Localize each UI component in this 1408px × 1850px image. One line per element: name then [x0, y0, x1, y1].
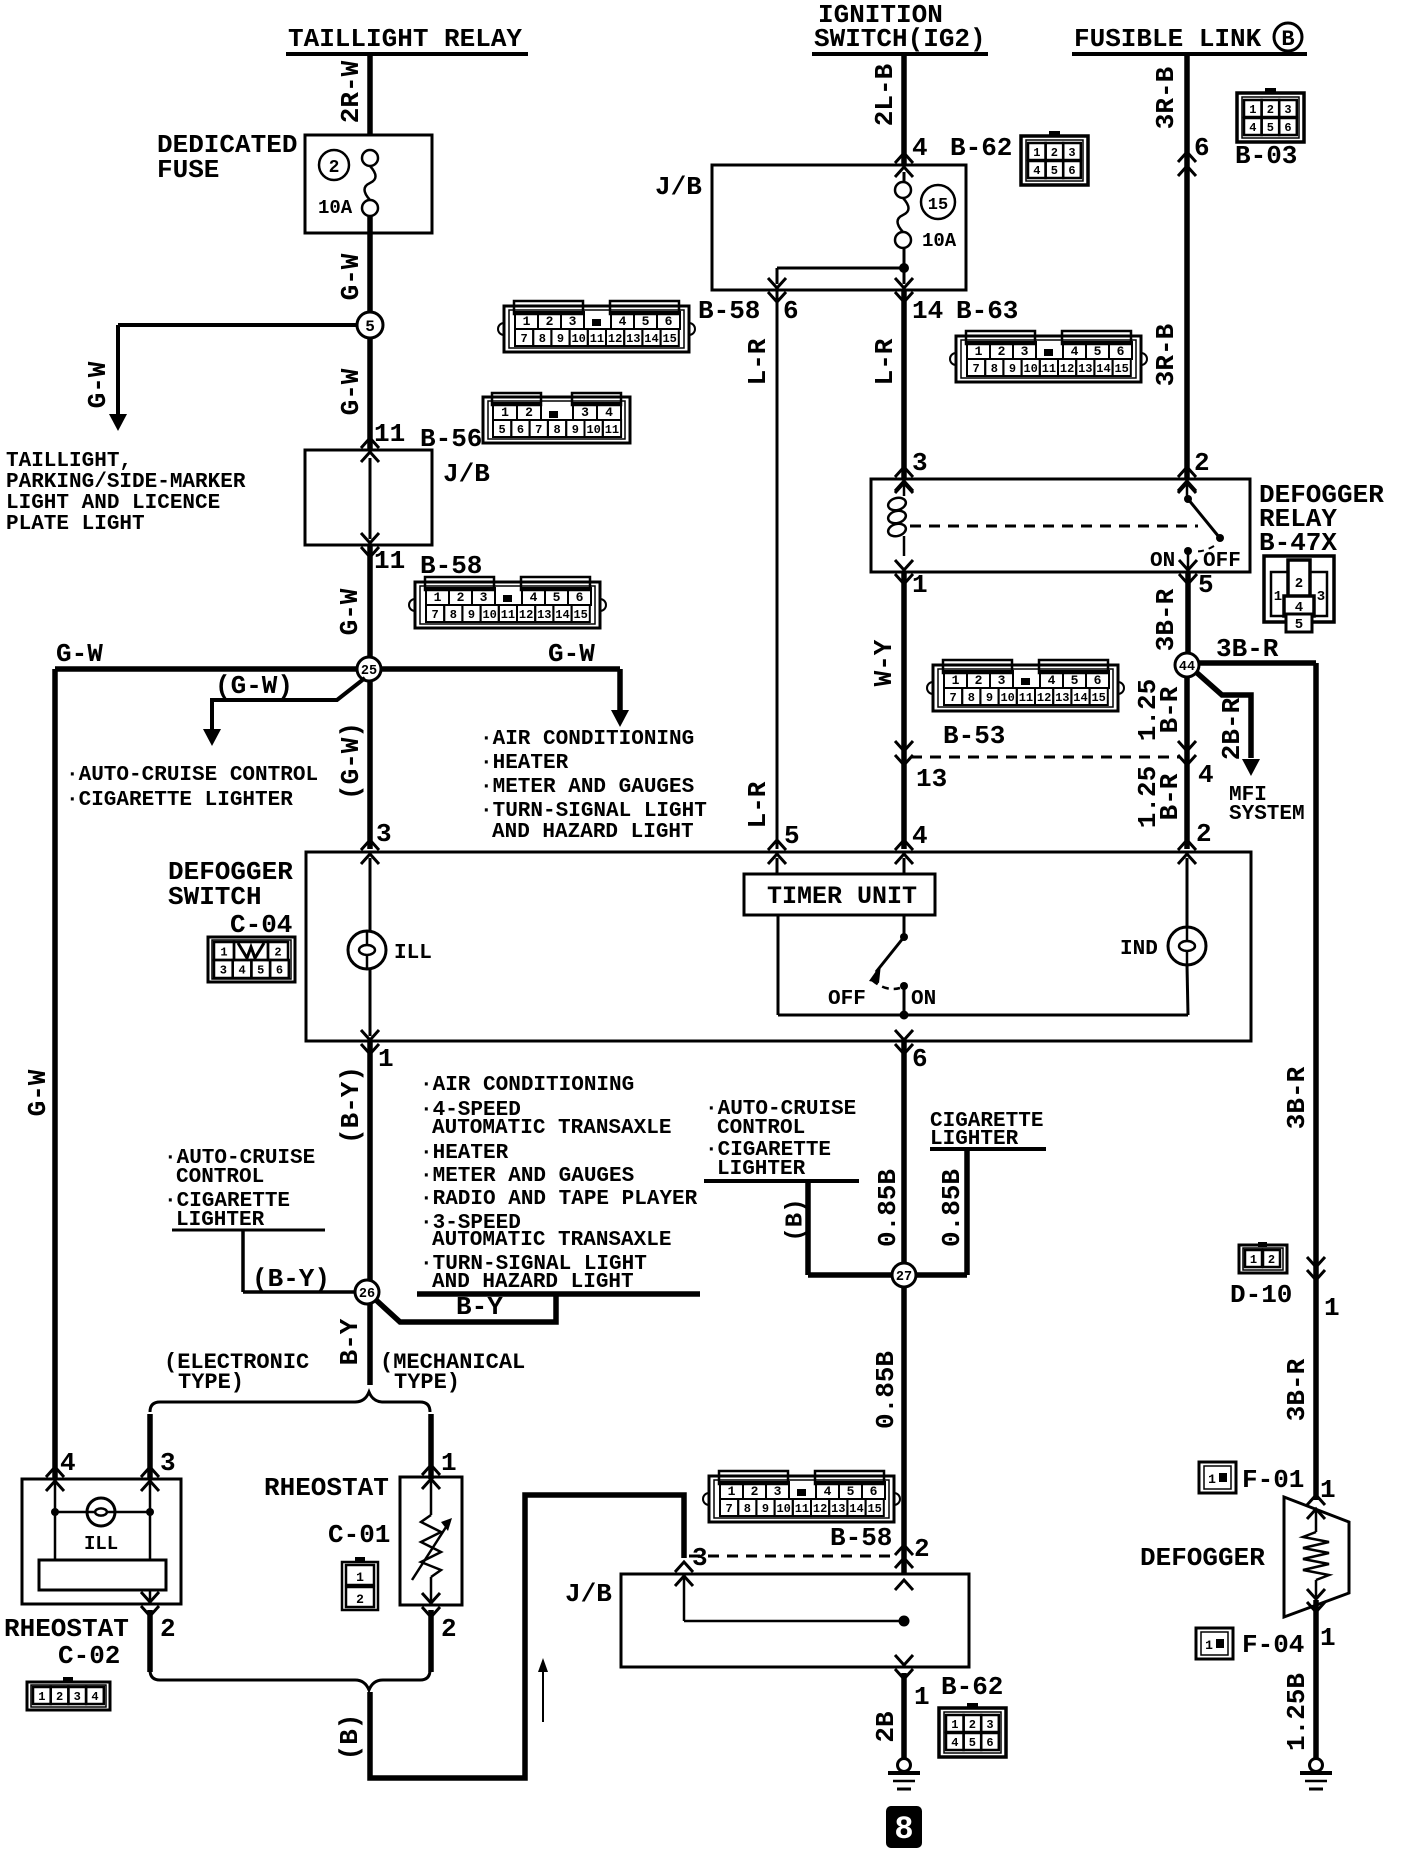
switch blade with arrowhead	[876, 937, 904, 972]
relay coil	[903, 483, 906, 496]
svg-text:CONTROL: CONTROL	[176, 1166, 264, 1189]
pin 14 chevrons out of J/B	[895, 292, 913, 302]
svg-text:5: 5	[784, 821, 800, 851]
svg-text:L-R: L-R	[870, 338, 900, 385]
svg-text:1: 1	[378, 1044, 394, 1074]
svg-text:4: 4	[530, 590, 538, 605]
svg-text:5: 5	[642, 314, 650, 329]
svg-text:2: 2	[1268, 1253, 1275, 1267]
svg-text:TYPE): TYPE)	[178, 1370, 244, 1395]
svg-text:10: 10	[482, 608, 496, 622]
bus junction dot	[900, 1011, 909, 1020]
svg-text:14: 14	[912, 296, 943, 326]
underline auto-cruise list	[172, 1229, 325, 1232]
svg-text:3: 3	[1284, 103, 1291, 117]
svg-text:14: 14	[555, 608, 569, 622]
wire pin 3 inside J/B	[683, 1574, 686, 1621]
svg-text:12: 12	[1037, 691, 1051, 705]
defogger element outline	[1284, 1497, 1349, 1617]
svg-text:L-R: L-R	[743, 781, 773, 828]
pin 11 chevrons into J/B	[361, 438, 379, 448]
connector C-04	[208, 937, 295, 982]
svg-text:8: 8	[553, 423, 560, 437]
svg-text:27: 27	[896, 1270, 912, 1285]
pin 4 chevrons into switch box	[895, 840, 913, 850]
svg-text:7: 7	[520, 332, 527, 346]
svg-text:4: 4	[1198, 760, 1214, 790]
svg-text:7: 7	[431, 608, 438, 622]
timer unit box	[744, 874, 935, 915]
svg-text:TIMER UNIT: TIMER UNIT	[767, 882, 917, 911]
svg-text:3: 3	[376, 819, 392, 849]
relay ON contact dot	[1184, 547, 1192, 555]
svg-text:25: 25	[361, 664, 377, 679]
junction block J/B (ignition)	[712, 165, 966, 290]
svg-text:4: 4	[238, 963, 245, 977]
svg-text:3: 3	[912, 448, 928, 478]
pin 6 chevrons out of switch box	[895, 1044, 913, 1054]
wire (B-Y) to node 26	[367, 1042, 373, 1281]
svg-text:(G-W): (G-W)	[215, 671, 293, 701]
svg-text:3: 3	[1021, 344, 1029, 359]
svg-text:B-58: B-58	[830, 1523, 892, 1553]
svg-text:J/B: J/B	[565, 1579, 612, 1609]
relay switch common	[1186, 483, 1189, 498]
connector B-03	[1237, 93, 1304, 142]
pin 1 chevrons out of J/B bottom	[895, 1669, 913, 1679]
svg-text:G-W: G-W	[23, 1069, 53, 1116]
svg-text:ILL: ILL	[394, 942, 432, 965]
svg-text:15: 15	[573, 608, 587, 622]
svg-text:DEFOGGER: DEFOGGER	[1140, 1543, 1265, 1573]
svg-text:1: 1	[441, 1448, 457, 1478]
svg-text:2B-R: 2B-R	[1217, 697, 1247, 760]
svg-text:0.85B: 0.85B	[871, 1351, 901, 1429]
svg-text:1: 1	[356, 1570, 364, 1585]
svg-text:15: 15	[662, 332, 676, 346]
arrow to taillight circuits	[109, 414, 127, 431]
node 25	[357, 657, 381, 681]
ILL lamp wire lower	[369, 969, 372, 1036]
rheostat resistor box	[39, 1560, 166, 1590]
wire junction to L-R branch	[777, 267, 904, 270]
fuse number circle 15	[921, 185, 955, 219]
svg-text:TYPE): TYPE)	[394, 1370, 460, 1395]
svg-text:2: 2	[56, 1690, 63, 1704]
defogger heater wire	[1315, 1510, 1318, 1532]
wire 3B-R to right rail	[1199, 660, 1316, 666]
svg-text:6: 6	[276, 963, 283, 977]
svg-text:10: 10	[1023, 362, 1037, 376]
svg-text:0.85B: 0.85B	[873, 1169, 903, 1247]
wire pin 2 down	[147, 1610, 153, 1672]
svg-text:2: 2	[1196, 819, 1212, 849]
svg-text:·HEATER: ·HEATER	[420, 1142, 509, 1165]
svg-text:3: 3	[569, 314, 577, 329]
wire (B) to J/B	[370, 1495, 684, 1778]
rheostat ILL lamp	[87, 1498, 115, 1526]
node 44	[1175, 653, 1199, 677]
svg-text:15: 15	[928, 196, 948, 215]
relay switch blade to OFF	[1188, 499, 1219, 537]
svg-text:9: 9	[1009, 362, 1016, 376]
pin 5 chevrons into switch box	[768, 840, 786, 850]
brace join to (B)	[150, 1670, 430, 1690]
svg-text:3: 3	[160, 1448, 176, 1478]
svg-text:2R-W: 2R-W	[336, 60, 366, 123]
svg-text:·HEATER: ·HEATER	[480, 752, 569, 775]
node 5	[357, 312, 383, 338]
wire G-W J/B to node 25	[367, 545, 373, 657]
svg-text:11: 11	[1042, 362, 1056, 376]
svg-text:3: 3	[220, 963, 227, 977]
defogger switch box	[306, 852, 1251, 1041]
svg-text:8: 8	[539, 332, 546, 346]
svg-text:FUSE: FUSE	[157, 155, 219, 185]
relay blade end dot	[1216, 534, 1224, 542]
relay pin5 chevrons out	[1179, 574, 1197, 584]
svg-text:11: 11	[1019, 691, 1033, 705]
connector B-58 top	[415, 582, 600, 628]
svg-text:·AIR CONDITIONING: ·AIR CONDITIONING	[420, 1074, 634, 1097]
svg-text:1: 1	[728, 1484, 736, 1499]
svg-text:12: 12	[813, 1502, 827, 1516]
wire 2R-W from taillight relay	[367, 56, 373, 135]
svg-text:RHEOSTAT: RHEOSTAT	[4, 1614, 129, 1644]
svg-text:15: 15	[867, 1502, 881, 1516]
svg-text:5: 5	[1267, 121, 1274, 135]
svg-text:G-W: G-W	[335, 588, 365, 635]
relay dashed ON position	[1193, 546, 1214, 551]
connector B-62 bottom	[939, 1708, 1006, 1757]
svg-text:SWITCH: SWITCH	[168, 882, 262, 912]
svg-text:14: 14	[849, 1502, 863, 1516]
wire from auto-cruise list to node 26	[241, 1230, 245, 1292]
fuse 15 symbol	[895, 182, 911, 198]
svg-text:1: 1	[951, 1718, 958, 1732]
svg-text:13: 13	[1055, 691, 1069, 705]
svg-text:ON: ON	[911, 988, 936, 1011]
svg-text:2: 2	[751, 1484, 759, 1499]
switch dashed to ON	[872, 980, 900, 989]
svg-text:26: 26	[359, 1287, 375, 1302]
wire G-W right branch	[381, 666, 620, 672]
switch stub from timer	[903, 915, 906, 937]
wire L-R to timer pin 5	[776, 290, 779, 849]
svg-text:B-R: B-R	[1155, 686, 1185, 733]
svg-text:3: 3	[581, 405, 589, 420]
svg-text:TAILLIGHT,: TAILLIGHT,	[6, 450, 132, 473]
svg-text:2: 2	[998, 344, 1006, 359]
svg-text:5: 5	[365, 318, 375, 336]
connector B-53	[933, 665, 1118, 711]
relay dashed link	[910, 525, 1198, 528]
svg-text:2: 2	[1194, 448, 1210, 478]
reference up arrow	[542, 1666, 544, 1722]
node 27	[892, 1263, 916, 1287]
svg-text:1: 1	[220, 945, 227, 959]
svg-text:6: 6	[665, 314, 673, 329]
svg-text:11: 11	[374, 419, 405, 449]
svg-text:G-W: G-W	[548, 639, 595, 669]
pin 1 chevrons	[422, 1465, 440, 1475]
connector chevrons B-03	[1178, 152, 1196, 162]
svg-text:1: 1	[1208, 1472, 1216, 1487]
svg-text:14: 14	[1096, 362, 1110, 376]
underline auto-cruise 2	[704, 1179, 859, 1183]
svg-text:11: 11	[795, 1502, 809, 1516]
svg-text:13: 13	[831, 1502, 845, 1516]
rheostat internal wires	[54, 1479, 57, 1560]
svg-text:2L-B: 2L-B	[870, 63, 900, 126]
svg-text:5: 5	[1198, 570, 1214, 600]
svg-text:(B): (B)	[335, 1714, 365, 1761]
svg-text:2B: 2B	[871, 1711, 901, 1743]
wire L-R ignition to relay pin 3	[901, 290, 907, 479]
svg-text:4: 4	[912, 821, 928, 851]
svg-text:9: 9	[557, 332, 564, 346]
svg-text:1: 1	[1249, 103, 1256, 117]
junction block J/B (bottom)	[621, 1574, 969, 1667]
wire G-W node5 to J/B	[367, 337, 373, 450]
svg-text:5: 5	[1051, 164, 1058, 178]
svg-text:B-62: B-62	[941, 1672, 1003, 1702]
svg-text:AND HAZARD LIGHT: AND HAZARD LIGHT	[492, 821, 694, 844]
pin 3 chevrons into defogger switch	[361, 840, 379, 850]
svg-text:4: 4	[1249, 121, 1256, 135]
svg-text:LIGHT AND LICENCE: LIGHT AND LICENCE	[6, 492, 220, 515]
svg-text:5: 5	[969, 1736, 976, 1750]
svg-text:2: 2	[969, 1718, 976, 1732]
svg-text:6: 6	[517, 423, 524, 437]
svg-text:1: 1	[1274, 589, 1282, 605]
svg-text:2: 2	[160, 1614, 176, 1644]
svg-text:L-R: L-R	[743, 338, 773, 385]
svg-text:TAILLIGHT RELAY: TAILLIGHT RELAY	[288, 24, 522, 54]
wire to mechanical rheostat pin 1	[428, 1414, 434, 1479]
wire inside J/B	[369, 458, 372, 539]
connector C-01	[342, 1562, 378, 1610]
svg-text:5: 5	[499, 423, 506, 437]
connector chevrons D-10 pin 1	[1307, 1270, 1325, 1280]
bus line in switch box	[778, 1014, 1188, 1017]
connector B-56	[483, 397, 630, 443]
svg-text:4: 4	[824, 1484, 832, 1499]
svg-text:1: 1	[975, 344, 983, 359]
wire 3R-B from fusible link	[1184, 56, 1190, 479]
relay pin3 chevron inside	[895, 483, 913, 493]
svg-text:4: 4	[1048, 673, 1056, 688]
svg-text:13: 13	[537, 608, 551, 622]
pin 4 chevrons into J/B	[895, 153, 913, 163]
svg-text:8: 8	[894, 1811, 913, 1848]
svg-text:FUSIBLE LINK: FUSIBLE LINK	[1074, 24, 1262, 54]
svg-text:6: 6	[1284, 121, 1291, 135]
connector B-58 bottom	[709, 1476, 894, 1522]
svg-text:B-47X: B-47X	[1259, 528, 1337, 558]
wire 0.85B switch to node 27	[901, 1042, 907, 1264]
wire defogger to ground	[1313, 1600, 1319, 1758]
svg-text:8: 8	[968, 691, 975, 705]
pin 1 chevrons out of switch box	[361, 1044, 379, 1054]
rheostat electronic box	[22, 1479, 181, 1604]
svg-text:·TURN-SIGNAL LIGHT: ·TURN-SIGNAL LIGHT	[480, 800, 707, 823]
svg-text:10: 10	[586, 423, 600, 437]
arrow to AC heater circuits	[611, 710, 629, 727]
svg-text:(G-W): (G-W)	[336, 722, 366, 800]
relay output wire	[1187, 551, 1190, 568]
svg-text:B-62: B-62	[950, 133, 1012, 163]
svg-text:2: 2	[525, 405, 533, 420]
lamp ILL	[348, 931, 386, 969]
svg-text:RHEOSTAT: RHEOSTAT	[264, 1473, 389, 1503]
svg-text:LIGHTER: LIGHTER	[717, 1158, 806, 1181]
variable resistor arrow	[412, 1524, 448, 1580]
svg-text:G-W: G-W	[83, 361, 113, 408]
svg-text:1: 1	[1324, 1293, 1340, 1323]
svg-text:2: 2	[356, 1592, 364, 1607]
svg-text:·METER AND GAUGES: ·METER AND GAUGES	[480, 776, 694, 799]
svg-text:9: 9	[986, 691, 993, 705]
svg-text:1.25B: 1.25B	[1282, 1673, 1312, 1751]
timer input wires	[776, 858, 779, 874]
svg-text:5: 5	[1295, 617, 1303, 633]
svg-text:3: 3	[1068, 146, 1075, 160]
node 26	[355, 1280, 379, 1304]
ILL lamp wire upper	[369, 858, 372, 931]
connector D-10	[1239, 1245, 1287, 1273]
svg-text:B-Y: B-Y	[335, 1318, 365, 1365]
connector B-58 at J/B exit	[504, 306, 689, 352]
fuse symbol 10A	[362, 150, 378, 166]
svg-text:J/B: J/B	[655, 172, 702, 202]
defogger heater element	[1303, 1532, 1329, 1580]
svg-text:6: 6	[1094, 673, 1102, 688]
pin 3 chevrons	[141, 1467, 159, 1477]
wire cigarette branch to node 27	[964, 1149, 970, 1275]
svg-text:44: 44	[1179, 660, 1195, 675]
svg-text:3: 3	[1317, 589, 1325, 605]
svg-text:F-01: F-01	[1242, 1465, 1304, 1495]
svg-text:7: 7	[949, 691, 956, 705]
connector chevrons B-53 pin 13	[895, 755, 913, 765]
svg-text:1: 1	[523, 314, 531, 329]
svg-text:2: 2	[1051, 146, 1058, 160]
svg-text:1: 1	[501, 405, 509, 420]
svg-text:G-W: G-W	[336, 368, 366, 415]
svg-text:7: 7	[725, 1502, 732, 1516]
svg-text:6: 6	[986, 1736, 993, 1750]
rheostat mechanical box	[400, 1477, 462, 1605]
svg-text:15: 15	[1114, 362, 1128, 376]
svg-text:3: 3	[986, 1718, 993, 1732]
svg-text:B-63: B-63	[956, 296, 1018, 326]
page number 8	[886, 1806, 922, 1848]
svg-text:1: 1	[1320, 1623, 1336, 1653]
svg-text:PLATE LIGHT: PLATE LIGHT	[6, 513, 145, 536]
wire (G-W) diagonal branch	[212, 678, 365, 730]
svg-text:3B-R: 3B-R	[1151, 588, 1181, 651]
svg-text:·CIGARETTE LIGHTER: ·CIGARETTE LIGHTER	[66, 789, 293, 812]
svg-text:2: 2	[1267, 103, 1274, 117]
svg-text:11: 11	[590, 332, 604, 346]
svg-text:2: 2	[1295, 576, 1303, 592]
svg-text:7: 7	[535, 423, 542, 437]
wire W-Y relay to timer pin 4	[901, 572, 907, 849]
timer left output to bus	[777, 915, 780, 1015]
fuse number circle 2	[319, 150, 349, 180]
wire branch left at node 5	[118, 323, 357, 327]
svg-text:CONTROL: CONTROL	[717, 1117, 805, 1140]
svg-text:B-58: B-58	[698, 296, 760, 326]
wire B-Y below node 26	[367, 1303, 373, 1385]
svg-text:4: 4	[91, 1690, 98, 1704]
chevrons into defogger	[1307, 1495, 1325, 1505]
svg-text:2: 2	[546, 314, 554, 329]
svg-text:1: 1	[1205, 1638, 1213, 1653]
arrow to MFI SYSTEM	[1242, 759, 1260, 776]
svg-text:9: 9	[762, 1502, 769, 1516]
svg-text:·METER AND GAUGES: ·METER AND GAUGES	[420, 1165, 634, 1188]
pin 3 chevrons into relay	[895, 467, 913, 477]
underline big list	[417, 1291, 700, 1297]
svg-text:3: 3	[480, 590, 488, 605]
connector chevrons pin 4	[1178, 755, 1196, 765]
svg-text:0.85B: 0.85B	[937, 1169, 967, 1247]
svg-text:1: 1	[1250, 1253, 1257, 1267]
svg-text:5: 5	[257, 963, 264, 977]
junction block J/B (taillight)	[305, 450, 432, 545]
dashed connector line B-53	[911, 756, 1180, 759]
wire fuse to junction	[903, 248, 906, 284]
svg-text:(B): (B)	[782, 1198, 809, 1241]
wire G-W fuse to node 5	[367, 216, 373, 313]
svg-text:5: 5	[847, 1484, 855, 1499]
svg-text:2: 2	[329, 158, 340, 178]
chevrons out of defogger	[1307, 1602, 1325, 1612]
ground (defogger)	[1310, 1759, 1323, 1772]
svg-text:6: 6	[1194, 133, 1210, 163]
svg-text:2: 2	[441, 1614, 457, 1644]
svg-text:6: 6	[1117, 344, 1125, 359]
svg-text:(B-Y): (B-Y)	[252, 1264, 330, 1294]
wire 2B-R to MFI	[1196, 672, 1251, 758]
svg-text:ON: ON	[1150, 550, 1175, 573]
svg-text:IND: IND	[1120, 938, 1158, 961]
svg-text:3B-R: 3B-R	[1216, 634, 1279, 664]
wire 3B-R relay to node 44	[1185, 572, 1191, 653]
svg-text:14: 14	[644, 332, 658, 346]
svg-text:W-Y: W-Y	[869, 639, 899, 686]
svg-text:PARKING/SIDE-MARKER: PARKING/SIDE-MARKER	[6, 471, 246, 494]
svg-text:4: 4	[60, 1448, 76, 1478]
defogger relay box	[871, 479, 1250, 572]
relay switch pivot	[1184, 495, 1192, 503]
svg-text:C-01: C-01	[328, 1520, 390, 1550]
relay pin1 chevrons out	[895, 574, 913, 584]
wire B-Y from big list	[376, 1296, 556, 1322]
svg-text:OFF: OFF	[828, 988, 866, 1011]
svg-text:3B-R: 3B-R	[1282, 1358, 1312, 1421]
ground (body)	[898, 1759, 911, 1772]
svg-text:ILL: ILL	[84, 1533, 118, 1555]
svg-text:B: B	[1281, 27, 1294, 52]
svg-text:AND HAZARD LIGHT: AND HAZARD LIGHT	[432, 1271, 634, 1294]
svg-text:13: 13	[916, 764, 947, 794]
svg-text:14: 14	[1073, 691, 1087, 705]
svg-text:10A: 10A	[318, 197, 353, 219]
svg-text:3: 3	[774, 1484, 782, 1499]
